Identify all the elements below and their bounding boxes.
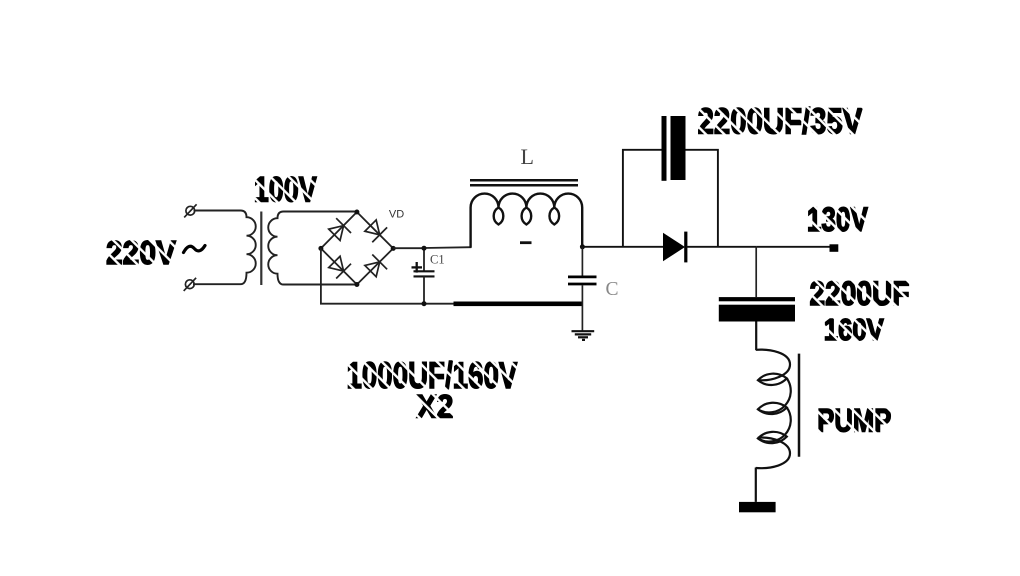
svg-text:PUMP: PUMP — [817, 403, 891, 439]
inductor L core line 2 — [470, 184, 578, 187]
svg-text:160V: 160V — [824, 314, 884, 347]
diode D cathode bar — [684, 232, 687, 263]
wire bridge left node down — [321, 248, 424, 303]
svg-text:220V: 220V — [106, 234, 176, 271]
svg-text:C: C — [606, 279, 619, 300]
diode VD3 bottom-left — [327, 254, 351, 278]
wire diode to node — [687, 246, 757, 248]
ground below C — [572, 331, 595, 340]
svg-text:100V: 100V — [254, 171, 317, 210]
node bridge bottom — [354, 282, 359, 287]
capacitor 2200UF/35V right plate — [671, 116, 686, 180]
inductor L core line 1 — [470, 179, 578, 182]
svg-text:C1: C1 — [430, 253, 445, 267]
capacitor 2200UF/35V left plate — [662, 116, 667, 181]
terminal top — [184, 204, 196, 217]
diode VD2 top-right — [363, 218, 387, 242]
wire bottom return — [424, 303, 458, 305]
transformer T1 secondary winding — [268, 212, 357, 285]
svg-text:2200UF: 2200UF — [810, 275, 910, 313]
diode D output — [663, 233, 685, 262]
node C1 top — [422, 246, 427, 251]
capacitor C — [568, 247, 597, 331]
svg-text:VD: VD — [389, 208, 404, 220]
capacitor 2200UF/160V top plate — [719, 297, 795, 301]
diode VD1 top-left — [327, 218, 351, 242]
capacitor C1 — [412, 248, 435, 304]
bypass loop left wire — [623, 150, 662, 247]
terminal bottom — [184, 278, 196, 291]
node inductor output — [580, 244, 585, 249]
svg-text:2200UF/35V: 2200UF/35V — [698, 102, 863, 142]
wire node down to output cap — [755, 247, 757, 297]
terminal 130V square — [830, 244, 839, 252]
svg-text:L: L — [521, 144, 534, 169]
wire C1 node to inductor riser — [424, 246, 471, 249]
node C1 bottom — [422, 301, 427, 306]
svg-text:X2: X2 — [417, 389, 454, 425]
inductor PUMP winding — [756, 322, 791, 502]
bridge rectifier VD frame — [321, 212, 393, 285]
node bridge right — [391, 246, 396, 251]
ground terminal bar — [739, 502, 776, 512]
inductor PUMP core — [798, 354, 801, 457]
bypass loop right wire — [686, 150, 718, 247]
capacitor 2200UF/160V bottom plate — [719, 305, 795, 322]
polarity minus of L — [520, 241, 532, 244]
transformer T1 primary winding — [193, 211, 256, 285]
wire bus C to diode — [582, 246, 664, 248]
wire node to 130V terminal — [756, 246, 830, 248]
diode VD4 bottom-right — [363, 254, 387, 278]
node bridge left — [318, 246, 323, 251]
thick return bus — [454, 302, 584, 307]
node bridge top — [354, 210, 359, 215]
transformer T1 core — [260, 212, 262, 286]
wire bridge right node to inductor — [393, 247, 424, 249]
AC tilde symbol — [184, 246, 206, 253]
inductor L winding — [471, 194, 583, 248]
svg-text:130V: 130V — [807, 201, 868, 239]
